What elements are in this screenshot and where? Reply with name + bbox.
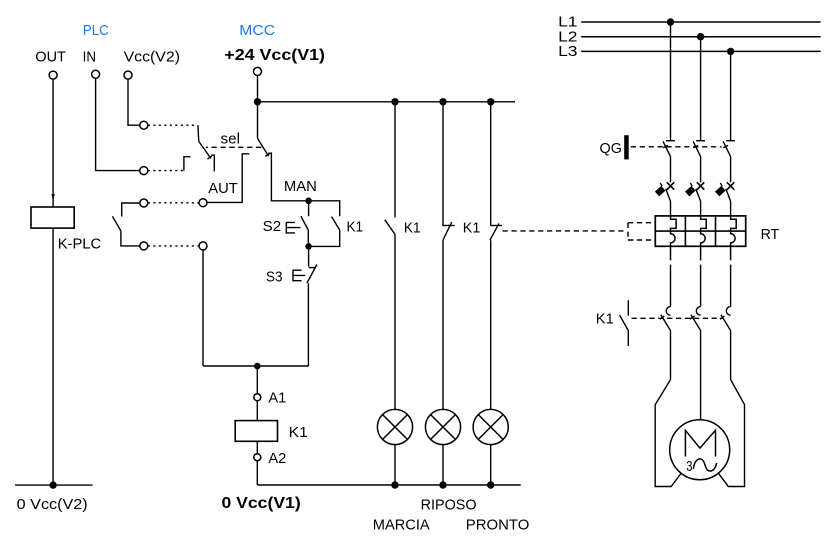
QG pole1 wire to breaker cross	[670, 157, 672, 183]
svg-text:3: 3	[686, 459, 692, 475]
K1 aux stem bottom	[627, 331, 629, 346]
node K-PLC contact top	[140, 199, 148, 207]
K1 linkage dashed	[632, 317, 724, 319]
RT heater element pole2	[701, 216, 707, 261]
lamp3 branch wire top	[490, 102, 492, 226]
svg-text:K1: K1	[289, 424, 308, 441]
svg-text:K1: K1	[404, 220, 421, 237]
wire RT to K1 pole3	[730, 265, 732, 307]
svg-text:MCC: MCC	[239, 22, 275, 39]
svg-text:K1: K1	[347, 219, 364, 236]
wire pull branch vertical	[202, 250, 204, 366]
lamp1 branch wire mid	[394, 234, 396, 409]
QG pole1 blade tick	[663, 145, 668, 147]
node sel input from IN	[140, 167, 148, 175]
breaker cross pole2	[697, 182, 704, 189]
wire OUT vertical lower	[52, 228, 54, 485]
junction dot L2	[697, 33, 704, 40]
QG pole1 blade	[663, 141, 671, 156]
wire IN down and right	[96, 78, 140, 170]
rail 0 Vcc(V2)	[15, 484, 93, 486]
sel linkage dashed	[206, 146, 261, 148]
junction dot latch bottom	[305, 243, 312, 250]
junction dot rail lamp3	[487, 98, 494, 105]
K1 pole2 wire to motor	[700, 331, 702, 421]
selector PLC-side left throw	[184, 157, 191, 171]
QG pole3 lower diagonal	[726, 189, 731, 201]
terminal A1	[254, 394, 261, 401]
svg-text:RT: RT	[761, 226, 780, 243]
svg-text:0 Vcc(V2): 0 Vcc(V2)	[17, 496, 88, 513]
wire S2 to dot2	[307, 230, 309, 243]
RT NC contact blade lamp3	[490, 223, 499, 240]
svg-text:QG: QG	[600, 140, 622, 157]
QG pole1 lower diagonal	[666, 189, 671, 201]
junction dot MAN	[305, 198, 312, 205]
K1 latch blade	[332, 217, 340, 230]
RT box divider 2	[715, 216, 717, 246]
terminal OUT	[49, 71, 57, 79]
motor AC tilde	[693, 459, 716, 471]
relay coil K-PLC	[31, 207, 74, 228]
lamp2 branch wire top	[442, 102, 444, 226]
breaker release flag pole3	[715, 186, 726, 197]
wire Vcc(V2) down and right	[128, 79, 140, 125]
S2 actuator	[286, 222, 300, 233]
RT heater element pole1	[671, 216, 677, 261]
K1 latch branch bottom	[312, 230, 340, 246]
main sel blade tick	[265, 153, 270, 156]
QG pole2 seat	[696, 140, 705, 142]
svg-text:MARCIA: MARCIA	[373, 517, 430, 534]
K1 pole1 wire down	[670, 331, 672, 380]
QG pole3 blade	[723, 141, 731, 156]
node AUT terminal	[199, 199, 207, 207]
svg-text:OUT: OUT	[35, 49, 66, 66]
K1 aux stem top	[627, 300, 629, 315]
lamp3 branch wire mid	[490, 240, 492, 409]
svg-text:PRONTO: PRONTO	[466, 517, 530, 534]
svg-text:S3: S3	[266, 269, 283, 286]
breaker QG handle bar	[624, 135, 629, 159]
terminal A2	[254, 454, 261, 461]
svg-text:MAN: MAN	[284, 178, 317, 195]
wire below S3	[307, 283, 309, 366]
wire OUT vertical	[52, 79, 54, 207]
QG pole3 upper wire	[730, 51, 732, 140]
svg-text:PLC: PLC	[83, 22, 109, 39]
QG pole1 wire into RT	[670, 201, 672, 216]
QG pole2 wire to breaker cross	[700, 157, 702, 183]
QG pole1 tail	[660, 183, 662, 186]
breaker cross pole3	[727, 182, 734, 189]
svg-text:K1: K1	[596, 310, 614, 327]
svg-text:+24 Vcc(V1): +24 Vcc(V1)	[224, 47, 325, 64]
K-PLC contact blade	[112, 216, 121, 231]
K1 pole1 contactor arc	[666, 307, 670, 316]
S3 actuator	[293, 270, 305, 281]
dashed bracket to RT block	[628, 223, 654, 240]
wire A1 to coil	[256, 401, 258, 421]
svg-text:A2: A2	[268, 450, 286, 467]
QG pole3 wire into RT	[730, 201, 732, 216]
wire S2 stem	[308, 204, 310, 217]
K-PLC contact bottom terminal	[121, 231, 140, 246]
line L3	[581, 50, 820, 52]
K1 pole1 blade tick	[660, 316, 664, 319]
QG pole2 tail	[690, 183, 692, 186]
K-PLC contact top terminal	[122, 203, 140, 217]
node sel input from Vcc(V2)	[140, 121, 148, 129]
QG pole2 blade tick	[693, 145, 698, 147]
svg-text:sel: sel	[221, 131, 241, 148]
motor feeder right	[718, 380, 744, 487]
motor feeder left	[655, 380, 681, 487]
svg-text:L3: L3	[558, 43, 577, 60]
selector PLC-side right throw	[211, 155, 214, 171]
junction dot L1	[667, 18, 674, 25]
selector PLC-side blade	[199, 142, 211, 159]
svg-text:IN: IN	[83, 49, 96, 66]
top rail	[258, 101, 516, 103]
K1 NC contact bar lamp2	[442, 225, 455, 227]
MCC CONTROL SECTION	[203, 75, 521, 485]
QG pole1 seat	[666, 140, 675, 142]
coil K1	[235, 421, 277, 442]
motor M1 circle	[670, 420, 730, 480]
RT box divider 1	[684, 216, 686, 246]
K1 aux blade	[620, 315, 629, 330]
dashed link RT contact to thermal relay	[503, 230, 626, 232]
svg-text:RIPOSO: RIPOSO	[421, 496, 477, 513]
RT heater element pole3	[731, 216, 737, 261]
junction dot rail-0V1 lamp2	[439, 481, 446, 488]
K1 pole2 blade tick	[690, 316, 694, 319]
K1 pole2 contactor arc	[696, 307, 700, 316]
junction dot rail lamp1	[391, 98, 398, 105]
QG pole2 lower diagonal	[696, 189, 701, 201]
node K-PLC contact bottom	[140, 242, 148, 250]
breaker release flag pole2	[685, 186, 696, 197]
svg-text:Vcc(V2): Vcc(V2)	[124, 49, 180, 66]
junction dot L3	[727, 48, 734, 55]
lamp2 branch wire bottom	[442, 445, 444, 486]
lamp2 branch wire mid	[442, 240, 444, 410]
K1 pole1 blade	[661, 315, 671, 331]
lamp3 branch wire bottom	[490, 445, 492, 486]
junction dot rail-0V1 lamp3	[487, 481, 494, 488]
lamp1 branch wire top	[394, 102, 396, 218]
junction dot coil branch	[254, 363, 261, 370]
RT box middle line	[655, 230, 745, 232]
lamp RIPOSO	[425, 409, 460, 444]
thermal relay RT box	[655, 216, 745, 246]
K1 pole3 wire down	[730, 331, 732, 380]
MAN throw terminal	[268, 153, 305, 201]
svg-text:K-PLC: K-PLC	[58, 235, 102, 252]
K1 pole3 blade tick	[720, 316, 724, 319]
wire coil to A2	[256, 441, 258, 453]
dotted link IN to selector left throw	[148, 170, 183, 172]
QG pole2 upper wire	[700, 37, 702, 141]
S3 blade	[307, 265, 317, 284]
QG pole3 wire to breaker cross	[730, 157, 732, 183]
K1 pole3 contactor arc	[726, 307, 730, 316]
lamp1 branch wire bottom	[394, 445, 396, 486]
wire RT to K1 pole2	[700, 265, 702, 307]
RT NC contact bar lamp3	[490, 225, 502, 227]
rail 0 Vcc(V1)	[257, 484, 520, 486]
AUT throw terminal	[207, 154, 249, 203]
QG pole2 wire into RT	[700, 201, 702, 216]
main sel blade	[258, 138, 269, 156]
K1 pole2 blade	[691, 315, 701, 331]
wire S3 stem	[308, 250, 310, 267]
QG pole3 tail	[720, 183, 722, 186]
wire A2 to rail	[256, 461, 258, 485]
dotted link AUT terminal to K-PLC contact	[148, 202, 199, 204]
junction dot rail lamp2	[439, 98, 446, 105]
motor letter M	[685, 430, 715, 456]
arrowhead on OUT wire	[51, 194, 55, 199]
K1 latch branch top	[312, 201, 340, 216]
svg-text:S2: S2	[263, 218, 282, 235]
svg-text:K1: K1	[463, 220, 481, 237]
terminal Vcc(V2)	[124, 71, 132, 79]
QG pole1 upper wire	[670, 22, 672, 140]
lamp PRONTO	[473, 409, 508, 444]
node MCC pull branch top	[199, 242, 207, 250]
selector PLC-side blade tick	[208, 156, 212, 159]
wire RT to K1 pole1	[670, 265, 672, 307]
lamp MARCIA	[377, 409, 412, 444]
wire +24 vertical	[257, 75, 259, 138]
dotted link Vcc(V2) to selector	[148, 124, 194, 126]
selector PLC-side top terminal	[197, 125, 200, 141]
line L1	[581, 21, 820, 23]
svg-text:AUT: AUT	[208, 180, 238, 197]
breaker release flag pole1	[655, 186, 666, 197]
QG pole3 blade tick	[723, 145, 728, 147]
K1 NO contact blade lamp1	[385, 220, 395, 235]
QG pole2 blade	[693, 141, 701, 156]
bottom latch wire	[203, 365, 308, 367]
svg-text:0 Vcc(V1): 0 Vcc(V1)	[222, 495, 301, 512]
svg-text:A1: A1	[268, 390, 286, 407]
K1 pole3 blade	[721, 315, 731, 331]
terminal IN	[92, 70, 100, 78]
S2 blade	[301, 216, 308, 230]
breaker cross pole1	[667, 182, 674, 189]
junction dot +24 rail	[254, 98, 261, 105]
S3 contact bar	[309, 267, 316, 269]
terminal +24 Vcc(V1)	[254, 67, 262, 75]
junction dot rail-0V1 lamp1	[391, 481, 398, 488]
line L2	[581, 36, 820, 38]
QG linkage dashed	[631, 146, 722, 148]
junction dot 0V2 rail	[49, 481, 56, 488]
QG pole3 seat	[726, 140, 735, 142]
K1 NC contact blade lamp2	[443, 222, 452, 239]
wire dot to A1	[256, 366, 258, 394]
dotted link K-PLC contact to pull branch	[148, 245, 199, 247]
